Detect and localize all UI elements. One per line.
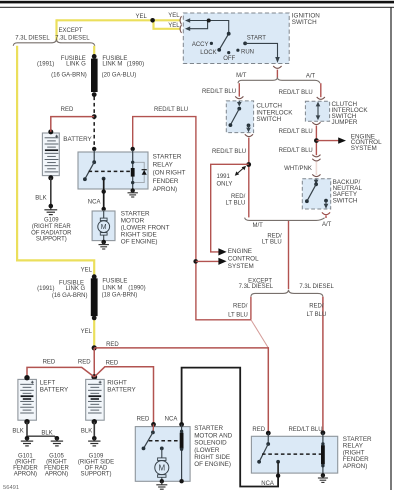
node relay switch terminal	[92, 147, 96, 151]
svg-text:7.3L DIESEL: 7.3L DIESEL	[55, 35, 90, 41]
wire NCA relay to starter motor	[103, 179, 105, 212]
svg-text:(1990): (1990)	[127, 61, 144, 67]
svg-text:A/T: A/T	[306, 74, 316, 80]
node solenoid NCA terminal	[179, 422, 184, 427]
svg-text:RED/LT BLU: RED/LT BLU	[279, 129, 313, 135]
clutch switch output contact	[247, 124, 251, 128]
right battery box	[86, 379, 105, 420]
arrow engine control system lower	[218, 258, 226, 265]
svg-text:LT BLU: LT BLU	[228, 312, 248, 318]
wire black dashed from fusible link to starter relay	[93, 97, 95, 151]
svg-text:(RIGHT SIDE: (RIGHT SIDE	[78, 459, 114, 465]
svg-text:RED/LT BLU: RED/LT BLU	[154, 107, 188, 113]
svg-text:LINK M: LINK M	[102, 285, 122, 291]
svg-text:RED: RED	[252, 427, 265, 433]
wire YEL branch 2 to ignition switch	[154, 20, 181, 29]
relay 2 NCA contact	[276, 460, 280, 464]
svg-text:YEL: YEL	[168, 23, 180, 29]
merge bracket M/T + A/T	[245, 218, 325, 221]
split bracket EXCEPT 7.3L / 7.3L DIESEL	[251, 290, 323, 297]
svg-text:RED: RED	[78, 360, 91, 366]
solenoid switch stub and contact	[152, 424, 154, 432]
clutch switch entry arrow	[238, 101, 240, 103]
node relay 2 switch terminal	[266, 431, 271, 436]
wire BLK right battery	[93, 422, 95, 439]
wire RED/LT BLU 7.3L branch down to relay	[322, 297, 324, 433]
svg-text:NCA: NCA	[88, 199, 101, 205]
svg-text:ACCY: ACCY	[192, 42, 209, 48]
wire stub backup output	[325, 216, 327, 219]
svg-text:SUPPORT): SUPPORT)	[36, 237, 67, 243]
svg-text:OF ENGINE): OF ENGINE)	[121, 239, 158, 246]
relay 2 coil bar	[321, 445, 325, 464]
svg-text:BATTERY: BATTERY	[40, 386, 69, 393]
wire ECS tap lower arrow line	[196, 260, 220, 262]
svg-text:BLK: BLK	[12, 429, 23, 435]
svg-text:FUSIBLE: FUSIBLE	[102, 279, 127, 285]
node junction dashed wire / battery red	[92, 114, 97, 119]
left battery box	[18, 379, 37, 420]
svg-text:OF RADIATOR: OF RADIATOR	[31, 230, 72, 236]
splice bracket 7.3L DIESEL / EXCEPT split	[13, 39, 95, 46]
solenoid motor contact	[160, 447, 164, 451]
svg-text:RUN: RUN	[241, 49, 254, 55]
ignition rotary lever	[219, 34, 228, 50]
svg-text:RED: RED	[106, 360, 119, 366]
relay 2 coil wire	[322, 433, 324, 476]
node solenoid bottom coil	[179, 479, 183, 483]
svg-text:M/T: M/T	[253, 223, 264, 229]
backup switch entry arrow	[315, 179, 317, 181]
svg-text:BLK: BLK	[35, 195, 46, 201]
border right line	[390, 7, 391, 490]
backup switch output contact	[324, 199, 328, 203]
relay ground	[131, 188, 135, 192]
wire YEL right branch to fusible link	[93, 46, 95, 56]
svg-text:(LOWER: (LOWER	[194, 447, 220, 454]
svg-text:RED: RED	[106, 342, 119, 348]
svg-text:APRON): APRON)	[14, 472, 37, 478]
wire tap to engine control system with arrow	[316, 140, 338, 142]
svg-text:RELAY: RELAY	[153, 162, 174, 169]
node fusible link 2 bottom	[92, 316, 97, 321]
svg-text:NCA: NCA	[261, 481, 274, 487]
wire RED/LT BLU except-7.3L branch	[250, 297, 252, 320]
svg-text:RIGHT SIDE: RIGHT SIDE	[121, 232, 157, 239]
svg-text:(20 GA-BLU): (20 GA-BLU)	[102, 72, 137, 78]
border top bar	[0, 1, 394, 4]
svg-text:FENDER: FENDER	[13, 466, 38, 472]
ground G109 (rad support)	[92, 436, 97, 441]
svg-text:(18 GA-BRN): (18 GA-BRN)	[102, 293, 138, 299]
wire YEL feed horizontal to ignition switch	[57, 19, 181, 21]
ignition internal wire to rotary pivot	[209, 21, 229, 34]
diode D1	[142, 169, 147, 171]
left battery plates	[20, 384, 34, 413]
wire RED/LT BLU relay feed from ignition branch	[133, 117, 251, 320]
node fusible link G bottom	[92, 92, 97, 97]
svg-text:(1990): (1990)	[128, 285, 145, 291]
svg-text:(RIGHT: (RIGHT	[15, 459, 36, 465]
inline connector pair	[312, 155, 320, 157]
svg-text:FENDER: FENDER	[153, 178, 179, 185]
svg-text:BLK: BLK	[41, 430, 52, 436]
border top thin line	[0, 7, 394, 8]
svg-text:ENGINE: ENGINE	[228, 248, 252, 255]
svg-text:OF RAD: OF RAD	[85, 466, 108, 472]
svg-text:CONTROL: CONTROL	[228, 256, 259, 263]
branch bracket M/T - A/T	[238, 77, 320, 83]
svg-text:LINK M: LINK M	[102, 61, 122, 67]
ignition internal feed line 1 with left arrowhead	[190, 20, 209, 22]
connector at jumper entry	[317, 97, 325, 99]
svg-text:LT BLU: LT BLU	[226, 200, 246, 206]
svg-text:LOCK: LOCK	[200, 50, 216, 56]
svg-text:STARTER: STARTER	[194, 425, 223, 432]
motor M1 symbol	[103, 211, 105, 218]
node fusible link 2 top	[92, 274, 97, 279]
arrow pointer 1991 only	[237, 168, 244, 174]
svg-text:M: M	[158, 464, 165, 473]
wire RED/LT BLU start stem	[276, 70, 278, 78]
svg-text:SWITCH: SWITCH	[256, 116, 281, 123]
svg-text:FENDER: FENDER	[44, 466, 69, 472]
svg-text:LINK G: LINK G	[66, 61, 86, 67]
svg-text:RED: RED	[137, 416, 150, 422]
node solenoid RED terminal	[151, 422, 156, 427]
backup switch upper contact	[314, 182, 318, 186]
battery plates	[45, 138, 59, 172]
ground G109 (radiator support)	[44, 206, 57, 215]
svg-text:SYSTEM: SYSTEM	[351, 145, 377, 152]
wire RED to starter motor and solenoid	[94, 367, 153, 425]
starter relay box (top)	[78, 152, 148, 189]
relay 2 NCA stub	[277, 462, 279, 476]
solenoid lever	[144, 432, 153, 448]
wire RED battery junction to relay2 feed	[94, 348, 268, 433]
connector arcs at ignition YEL entries	[180, 16, 181, 24]
svg-text:A/T: A/T	[322, 222, 332, 228]
svg-text:G109: G109	[44, 218, 59, 224]
solenoid coil bar	[180, 433, 184, 449]
node left battery top	[24, 375, 29, 380]
svg-text:YEL: YEL	[136, 14, 148, 20]
starter relay box (bottom)	[251, 436, 337, 473]
clutch interlock switch box	[226, 101, 253, 133]
svg-text:RED/LT BLU: RED/LT BLU	[202, 89, 236, 95]
right battery plates	[88, 384, 102, 413]
svg-text:STARTER: STARTER	[153, 154, 182, 161]
svg-text:MOTOR: MOTOR	[121, 218, 145, 225]
svg-text:7.3L DIESEL: 7.3L DIESEL	[299, 284, 334, 290]
relay mechanical dashed link	[89, 170, 132, 172]
svg-text:1991: 1991	[217, 174, 231, 180]
svg-text:SOLENOID: SOLENOID	[194, 440, 227, 447]
connector below backup switch	[322, 212, 330, 214]
svg-text:G109: G109	[89, 453, 104, 459]
back-up / neutral safety switch box	[302, 179, 330, 209]
svg-text:APRON): APRON)	[343, 463, 368, 470]
solenoid coil wire	[181, 424, 183, 481]
fusible link G/M (top)	[91, 59, 98, 92]
svg-text:RED: RED	[61, 107, 74, 113]
wire BLK branch to G105	[27, 436, 57, 438]
svg-text:(LOWER FRONT: (LOWER FRONT	[121, 225, 170, 232]
svg-text:RED/: RED/	[233, 304, 248, 310]
node engine control tap junction	[314, 138, 319, 143]
svg-text:7.3L DIESEL: 7.3L DIESEL	[239, 284, 274, 290]
node YEL junction	[150, 18, 155, 23]
node battery bottom	[48, 175, 53, 180]
node NCA below relay	[102, 189, 106, 193]
wire RED/LT BLU clutch output down to 1991 junction	[248, 138, 250, 218]
svg-text:G101: G101	[18, 453, 33, 459]
relay NCA contact	[102, 177, 106, 181]
node relay coil terminal	[131, 147, 135, 151]
wire YEL stem down to split	[55, 19, 57, 40]
svg-text:WHT/PNK: WHT/PNK	[284, 166, 312, 172]
starter motor box (top)	[92, 211, 115, 241]
svg-text:YEL: YEL	[168, 13, 180, 19]
connector at backup switch entry	[312, 174, 320, 176]
svg-text:SWITCH: SWITCH	[292, 19, 317, 26]
svg-text:APRON): APRON)	[153, 186, 178, 193]
relay coil wire	[132, 150, 134, 189]
node ECS tap	[193, 259, 198, 264]
clutch switch lever	[231, 109, 240, 125]
svg-text:(1991): (1991)	[37, 286, 54, 292]
ignition contact START	[243, 42, 247, 46]
svg-text:BLK: BLK	[81, 429, 92, 435]
node battery top	[48, 129, 53, 134]
svg-text:ONLY: ONLY	[217, 182, 233, 188]
svg-text:RED/LT BLU: RED/LT BLU	[279, 90, 313, 96]
connector below jumper	[312, 122, 320, 124]
svg-text:JUMPER: JUMPER	[332, 119, 358, 126]
node relay 2 coil terminal	[321, 430, 326, 435]
svg-text:(RIGHT REAR: (RIGHT REAR	[32, 224, 72, 230]
svg-text:RED/LT BLU: RED/LT BLU	[212, 149, 246, 155]
node fusible link G top	[92, 54, 97, 59]
jumper internal double arrow	[317, 104, 319, 118]
wire RED/LT BLU M/T branch	[238, 83, 240, 96]
node relay 2 NCA below box	[276, 474, 280, 478]
wire RED/LT BLU merged stem	[288, 221, 290, 289]
relay 2 mechanical dashed link	[262, 453, 322, 455]
svg-text:RED/: RED/	[309, 303, 324, 309]
svg-text:BATTERY: BATTERY	[107, 386, 136, 393]
svg-text:G105: G105	[49, 453, 64, 459]
relay lever	[85, 162, 94, 179]
connector below ignition START output	[273, 66, 281, 68]
motor M2 symbol	[161, 448, 163, 458]
relay coil loop	[133, 162, 145, 182]
svg-text:(16 GA-BRN): (16 GA-BRN)	[51, 72, 87, 78]
svg-text:YEL: YEL	[81, 267, 93, 273]
wire RED to left battery	[27, 367, 94, 377]
svg-text:START: START	[247, 36, 266, 42]
wire black NCA loop solenoid to relay 2	[182, 368, 279, 487]
node left battery bottom	[24, 419, 29, 424]
svg-text:(ON RIGHT: (ON RIGHT	[153, 170, 186, 177]
svg-text:NCA: NCA	[165, 416, 178, 422]
node battery feed junction	[92, 345, 97, 350]
starter motor and solenoid box	[135, 427, 190, 482]
wire RED/LT BLU A/T branch	[320, 83, 322, 97]
wire RED/LT BLU jumper output	[315, 126, 317, 156]
svg-text:LT BLU: LT BLU	[307, 312, 327, 318]
svg-text:YEL: YEL	[81, 329, 93, 335]
relay switch contact stub	[93, 150, 95, 162]
wire diagonal into battery feed corner	[251, 320, 268, 348]
node NCA at motor	[102, 207, 106, 211]
svg-text:APRON): APRON)	[45, 472, 68, 478]
svg-text:(1991): (1991)	[37, 61, 54, 67]
svg-text:LT BLU: LT BLU	[262, 239, 282, 245]
clutch interlock switch jumper box	[305, 101, 329, 121]
node ignition feed junction	[207, 19, 211, 23]
ignition internal feed line 2 with left arrowhead	[190, 21, 208, 29]
ignition contact LOCK	[217, 48, 221, 52]
arrow engine control system upper	[218, 248, 226, 255]
clutch switch exit arrow	[248, 125, 250, 128]
node right battery feed	[91, 374, 97, 380]
svg-text:RED/: RED/	[231, 194, 246, 200]
motor ground	[101, 240, 106, 245]
wire branch to engine control system (1991 only)	[211, 164, 249, 252]
svg-text:(16 GA-BRN): (16 GA-BRN)	[52, 293, 88, 299]
ignition contact OFF	[227, 51, 230, 54]
svg-text:STARTER: STARTER	[121, 211, 150, 218]
battery (top) box	[42, 133, 59, 176]
svg-text:RIGHT SIDE: RIGHT SIDE	[194, 454, 230, 461]
svg-text:OF ENGINE): OF ENGINE)	[194, 461, 231, 468]
backup switch lever	[307, 184, 316, 200]
wire BLK battery to ground	[50, 178, 52, 206]
connector at clutch interlock switch entry	[235, 96, 243, 98]
svg-text:OFF: OFF	[223, 56, 235, 62]
svg-text:LINK G: LINK G	[66, 286, 86, 292]
wire RED down to right battery	[93, 348, 95, 377]
svg-text:M/T: M/T	[236, 73, 247, 79]
svg-text:7.3L DIESEL: 7.3L DIESEL	[15, 35, 50, 41]
wire BLK left battery	[26, 422, 28, 439]
svg-text:RED/LT BLU: RED/LT BLU	[279, 148, 313, 154]
backup switch exit arrow	[325, 201, 327, 205]
svg-text:SYSTEM: SYSTEM	[228, 263, 254, 270]
ignition START output wire with down arrow	[245, 43, 277, 57]
fusible link G/M (bottom)	[91, 278, 98, 316]
svg-text:56491: 56491	[3, 485, 19, 491]
svg-text:SUPPORT): SUPPORT)	[81, 472, 112, 478]
svg-text:SWITCH: SWITCH	[333, 197, 358, 204]
battery plus mark	[55, 135, 58, 138]
wire YEL lower run to fusible link 2	[93, 318, 95, 347]
ground G105	[55, 436, 60, 441]
svg-text:MOTOR AND: MOTOR AND	[194, 432, 232, 439]
wire RED battery to junction	[51, 117, 94, 132]
ignition contact ACCY	[210, 42, 213, 45]
svg-text:EXCEPT: EXCEPT	[58, 28, 82, 34]
clutch switch upper contact	[237, 107, 241, 111]
svg-text:(RIGHT: (RIGHT	[46, 459, 67, 465]
connector below clutch interlock switch	[245, 134, 253, 136]
relay 2 switch stub	[267, 433, 269, 444]
relay 2 lever	[259, 444, 268, 461]
ignition contact RUN	[236, 49, 239, 52]
relay coil bar	[131, 168, 135, 177]
node solenoid bottom motor	[160, 479, 164, 483]
ignition switch box U-ign	[183, 13, 289, 64]
node 1991 junction	[246, 162, 251, 167]
svg-text:RED: RED	[43, 360, 56, 366]
svg-text:RED/LT BLU: RED/LT BLU	[288, 427, 322, 433]
relay 2 ground	[321, 473, 325, 477]
solenoid ground	[156, 481, 167, 489]
node right battery bottom	[92, 419, 97, 424]
solenoid mechanical dashed link	[149, 440, 180, 442]
ground G101	[25, 436, 30, 441]
wire YEL left branch 7.3L diesel long run	[17, 46, 94, 276]
svg-text:BATTERY: BATTERY	[63, 136, 92, 143]
wire WHT/PNK	[315, 162, 317, 175]
svg-text:M: M	[101, 224, 107, 231]
